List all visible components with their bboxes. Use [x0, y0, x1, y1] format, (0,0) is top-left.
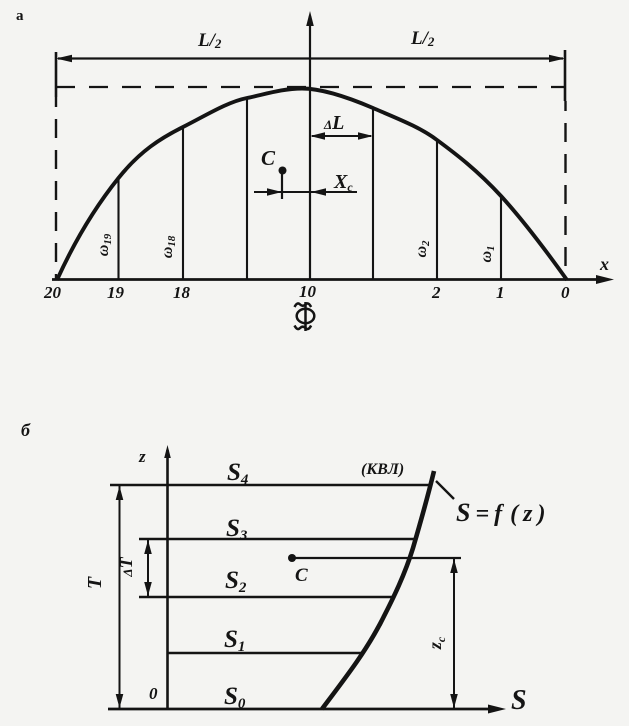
svg-text:20: 20 [43, 283, 62, 302]
svg-text:x: x [599, 254, 609, 274]
svg-text:T: T [84, 576, 106, 589]
svg-text:S: S [511, 685, 527, 716]
svg-text:18: 18 [173, 283, 191, 302]
svg-text:0: 0 [149, 684, 158, 703]
svg-text:a: a [16, 8, 24, 24]
svg-text:б: б [21, 420, 31, 440]
svg-text:0: 0 [561, 283, 570, 302]
svg-text:1: 1 [496, 283, 505, 302]
svg-text:2: 2 [431, 283, 441, 302]
svg-text:(КВЛ): (КВЛ) [361, 461, 404, 478]
svg-text:S=f(z): S=f(z) [456, 498, 550, 527]
svg-text:z: z [138, 447, 146, 466]
svg-text:C: C [261, 146, 276, 170]
svg-text:C: C [295, 565, 308, 586]
svg-text:19: 19 [107, 283, 125, 302]
svg-text:10: 10 [299, 282, 317, 301]
